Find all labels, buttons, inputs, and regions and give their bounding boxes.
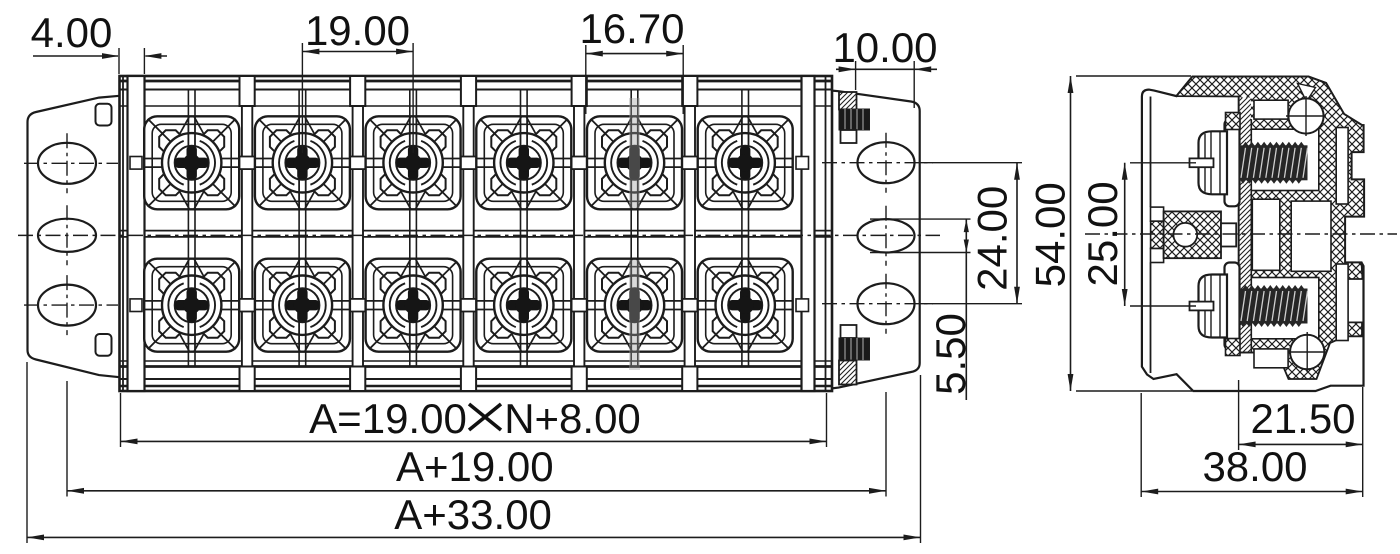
svg-text:19.00: 19.00: [305, 7, 410, 54]
moulded section hatch: [1177, 77, 1365, 379]
svg-text:4.00: 4.00: [31, 9, 113, 56]
terminal pocket B6 screw: [698, 259, 793, 352]
right wing slot at y=162.7: [858, 142, 915, 183]
terminal pocket B3 screw: [366, 259, 461, 352]
svg-text:24.00: 24.00: [969, 186, 1016, 291]
barrier wall 2: [353, 106, 363, 367]
bottom air gap: [1194, 369, 1239, 390]
main horizontal centerline: [18, 234, 940, 236]
terminal pocket B1 screw: [144, 259, 239, 352]
left wing slot at y=305.1: [38, 285, 96, 326]
right wing solder lug hatch top: [839, 92, 857, 110]
terminal pocket A2 screw: [255, 116, 350, 209]
body left edge inner line: [122, 76, 124, 391]
upper roof pocket: [1254, 100, 1288, 119]
svg-text:38.00: 38.00: [1202, 443, 1307, 490]
washer lip lower: [1226, 339, 1241, 356]
svg-text:54.00: 54.00: [1027, 182, 1074, 287]
wing wall inner edge: [1150, 97, 1152, 208]
right wing stud base bottom: [841, 325, 857, 338]
middle pocket 2: [1291, 201, 1331, 271]
terminal pocket B5 screw: [587, 259, 682, 352]
lower cavity: [1251, 278, 1319, 339]
mounting boss hooks: [1151, 207, 1164, 221]
svg-text:10.00: 10.00: [832, 24, 937, 71]
right wing stud base top: [841, 130, 857, 143]
svg-text:A+33.00: A+33.00: [394, 491, 552, 538]
terminal pocket B4 screw: [476, 259, 571, 352]
barrier wall 4: [574, 106, 584, 367]
svg-text:25.00: 25.00: [1079, 181, 1126, 286]
right mounting wing: [832, 91, 920, 389]
body right edge inner line: [825, 76, 827, 391]
main wall single-hatch band: [1240, 98, 1251, 352]
gray shading pole 5: [629, 98, 640, 208]
terminal strip body outline: [120, 76, 833, 391]
bottom cage line: [1239, 352, 1262, 354]
left wing slot at y=235.3: [38, 219, 96, 252]
barrier wall 5: [685, 106, 695, 367]
lower clamp screw: [1225, 263, 1240, 350]
right wing slot at y=235.8: [858, 219, 915, 252]
right wing solder stud top: [839, 109, 870, 130]
right wing slot at y=303.7: [858, 283, 915, 324]
terminal pocket A3 screw: [366, 116, 461, 209]
svg-text:16.70: 16.70: [579, 5, 684, 52]
upper wire funnel: [1298, 84, 1316, 102]
upper clamp screw: [1225, 119, 1240, 206]
left wing latch tab bottom: [96, 334, 112, 356]
barrier wall 3: [463, 106, 473, 367]
left wing latch tab top: [96, 104, 112, 126]
middle pocket 1: [1252, 199, 1280, 270]
left end wall: [128, 76, 145, 391]
terminal pocket A5 screw: [587, 116, 682, 209]
lower roof pocket: [1254, 349, 1288, 368]
right wing solder stud bottom: [839, 338, 870, 360]
wing slot crosshairs: [24, 162, 118, 164]
right wing solder lug hatch bottom: [839, 361, 857, 385]
svg-text:A+19.00: A+19.00: [396, 443, 554, 490]
side view housing outline: [1142, 77, 1364, 391]
terminal pocket A4 screw: [476, 116, 571, 209]
mounting boss section: [1151, 221, 1164, 248]
upper right channel: [1336, 128, 1348, 205]
svg-text:A=19.00: A=19.00: [309, 395, 467, 442]
terminal pocket B2 screw: [255, 259, 350, 352]
terminal pocket A6 screw: [698, 116, 793, 209]
terminal pocket A1 screw: [144, 116, 239, 209]
left wing slot at y=163.3: [38, 143, 96, 184]
barrier wall 1: [242, 106, 252, 367]
svg-text:21.50: 21.50: [1250, 395, 1355, 442]
lower wire funnel: [1290, 335, 1324, 369]
washer lip upper: [1226, 113, 1241, 130]
left mounting wing: [28, 96, 120, 377]
lower right channel: [1336, 264, 1348, 341]
upper cavity: [1251, 129, 1319, 190]
boss tip: [1221, 223, 1236, 246]
side view centerline: [1085, 233, 1397, 235]
body inner horizontal lines: [120, 80, 833, 83]
right end wall: [802, 76, 815, 391]
inter-row guide lines: [188, 90, 748, 367]
svg-text:N+8.00: N+8.00: [504, 395, 641, 442]
